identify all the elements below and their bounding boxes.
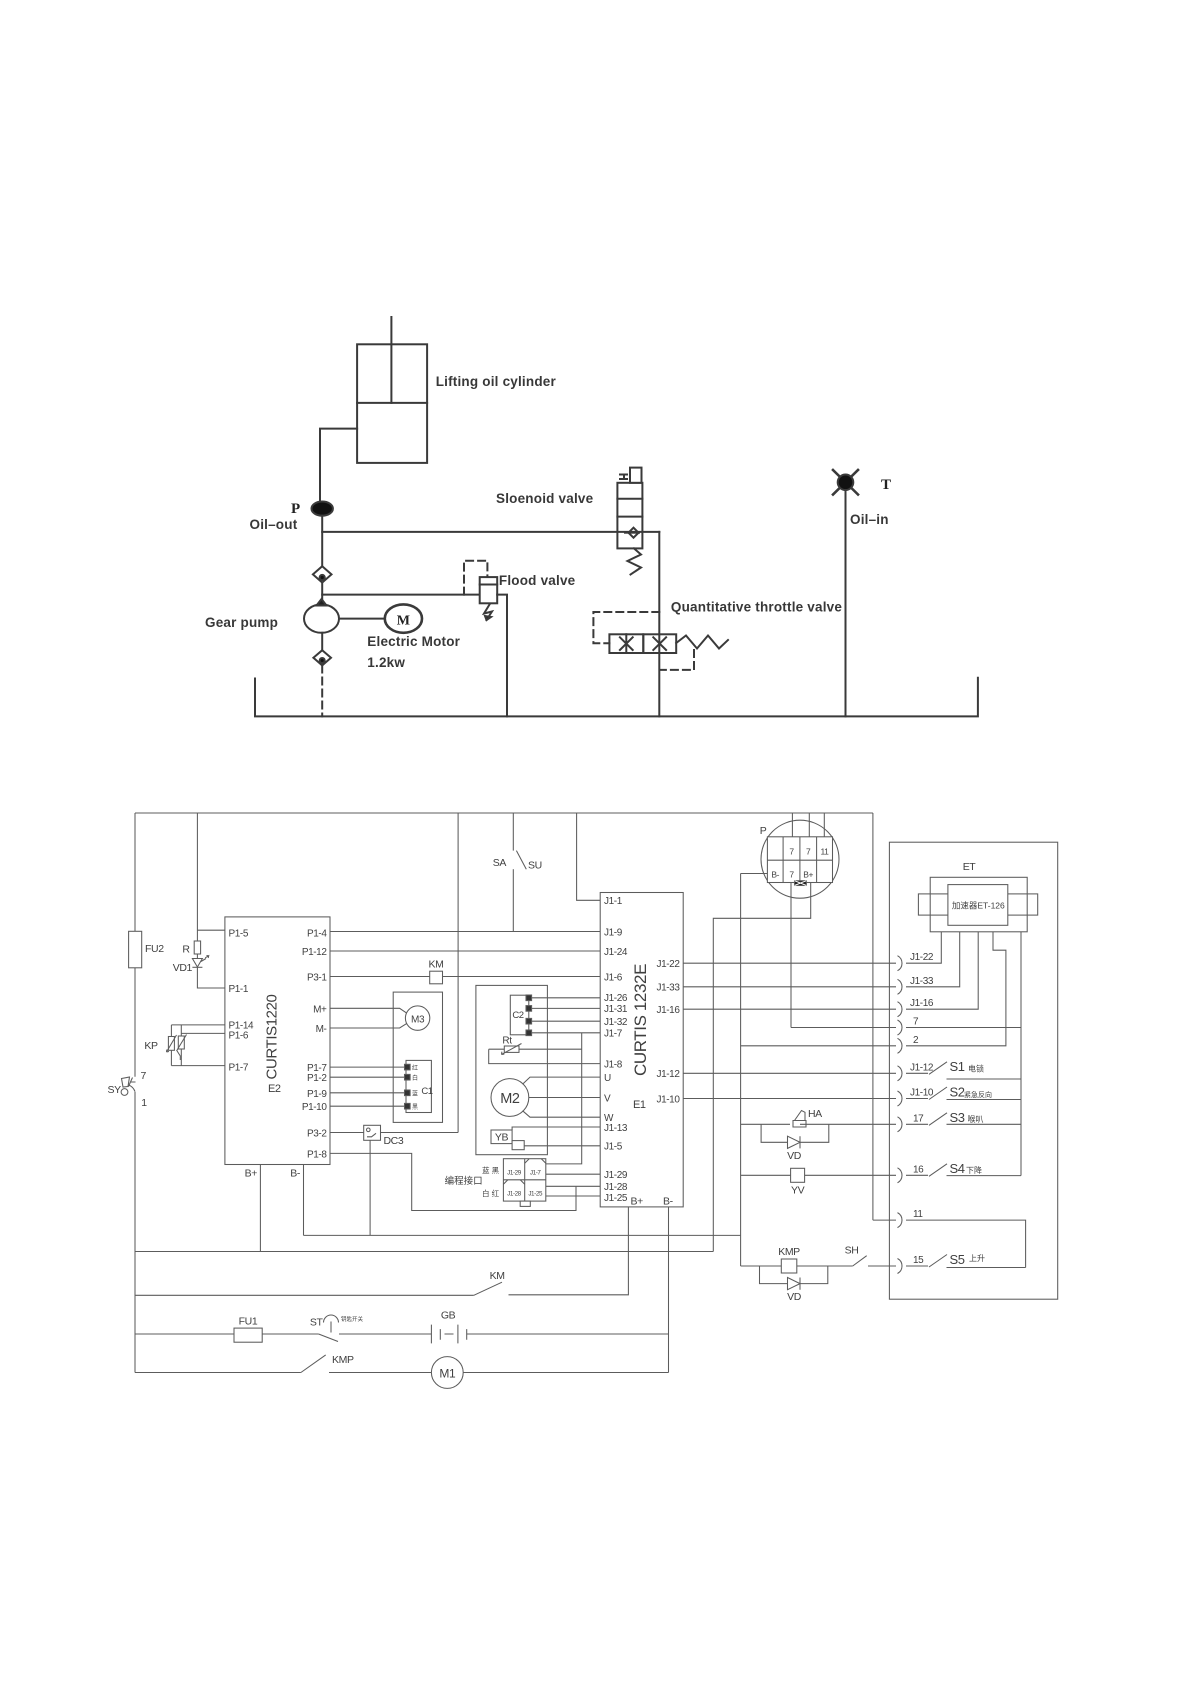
wire terminal 7 to ET [791,1027,896,1029]
svg-text:2: 2 [913,1035,919,1046]
wire P3-2 to DC3 [330,1132,364,1134]
wire C2 to J1-26 [532,997,601,999]
wire J1-16 to ET pin3 [683,1008,896,1010]
wire left rail lower [134,1092,136,1373]
wire B+ of CURTIS1220 [259,1165,261,1252]
diode VD bypass of KMP [760,1266,828,1284]
wire GB to B- vertical [467,1333,669,1335]
svg-text:蓝 黑: 蓝 黑 [482,1165,500,1175]
wire YB to J1-13 [512,1127,600,1130]
wire top rail to P pin 7a [791,813,793,837]
svg-text:J1-13: J1-13 [604,1123,628,1134]
svg-text:B+: B+ [803,870,813,880]
wire P1-8 to J1-28 net [330,1153,576,1210]
svg-text:CURTIS 1232E: CURTIS 1232E [631,964,650,1076]
solenoid valve spring [628,548,642,574]
svg-text:E2: E2 [268,1083,281,1095]
wire C2 to J1-32 [532,1020,601,1022]
wire M1 to B- vertical [463,1372,668,1374]
solenoid valve pilot box [630,468,642,483]
svg-text:GB: GB [441,1310,456,1322]
svg-text:Lifting oil cylinder: Lifting oil cylinder [436,374,557,389]
programming connector tab [520,1201,530,1206]
svg-text:J1-6: J1-6 [604,972,623,983]
wire P pin 7 to terminal 7 [790,883,792,1028]
motor M2 box [476,985,548,1154]
svg-text:M2: M2 [500,1091,520,1107]
electric motor M [385,604,422,632]
controller CURTIS 1232E box E1 [600,893,683,1207]
wire connector to J1-29 [546,1173,600,1175]
dashed suction line to tank [321,666,323,717]
sensor KP element 1 [168,1037,174,1051]
node P oil-out port [312,502,333,516]
wire KM line from left rail [135,1294,474,1296]
connector P keying mark [795,881,807,886]
svg-text:P1-10: P1-10 [302,1102,328,1113]
thermistor Rt [489,1048,582,1050]
contactor KM contact [474,1282,502,1295]
wire 11 to S5 return [906,1220,1026,1267]
electrical schematic [108,813,1058,1388]
switch S1 speed select [683,1072,896,1074]
switch SA SU [512,813,514,851]
pump motor M1 [431,1357,463,1389]
svg-text:FU2: FU2 [145,943,164,955]
wire valve YV line from common rail [741,1174,791,1176]
switch S3 horn [906,1123,928,1125]
wire DC3 to top rail [381,1132,459,1134]
svg-text:J1-9: J1-9 [604,927,623,938]
svg-text:7: 7 [806,847,811,857]
check valve above gear pump [313,566,332,582]
sensor KP element 2 [178,1036,184,1049]
wire connector to J1-25 [546,1195,600,1197]
wire pump branch to flood valve [322,594,480,596]
svg-text:Oil–in: Oil–in [850,512,889,527]
wire P1-2 to C1 [330,1076,405,1078]
svg-text:上升: 上升 [969,1254,985,1263]
svg-text:加速器ET-126: 加速器ET-126 [952,901,1005,911]
wire P1-9 to C1 [330,1092,405,1094]
svg-text:电锁: 电锁 [968,1064,984,1074]
motor M3 box [393,992,442,1122]
wire C2 to J1-31 [532,1007,601,1009]
wire J1-7 vertical to programming connector [546,1033,582,1164]
temperature sensor KP wires [171,1024,225,1026]
svg-text:J1-22: J1-22 [910,952,934,963]
wire VD1 to P1-1 [197,967,225,988]
switch S5 raise [906,1265,928,1267]
svg-text:16: 16 [913,1164,924,1175]
svg-text:P1-7: P1-7 [229,1063,249,1074]
wire HA to terminal 17 [800,1123,896,1125]
svg-text:J1-8: J1-8 [604,1059,623,1070]
wire U phase [523,1077,601,1084]
wire left rail upper [134,813,136,1077]
svg-text:VD1: VD1 [173,962,193,974]
svg-text:S5: S5 [950,1252,965,1267]
wire B- of CURTIS1220 [303,1165,305,1236]
wire pump to motor shaft [339,618,385,620]
LED VD1 [196,954,198,959]
svg-text:J1-16: J1-16 [656,1005,680,1016]
svg-text:喉叭: 喉叭 [968,1114,984,1124]
lifting oil cylinder piston rod [390,317,392,403]
contactor KMP contact [301,1355,326,1373]
svg-text:P1-12: P1-12 [302,947,328,958]
diode VD bypass of HA [761,1124,829,1142]
fuse FU2 [129,931,142,968]
svg-text:P3-2: P3-2 [307,1129,327,1140]
wire YV to terminal 16 [805,1174,896,1176]
svg-text:KP: KP [144,1040,158,1052]
svg-text:KM: KM [429,959,444,971]
throttle symbol X right [653,637,666,650]
node T oil-in port [833,470,858,495]
svg-text:J1-7: J1-7 [530,1169,542,1176]
wire top rail to P pin 11 [823,813,825,837]
wire J1-22 to ET pin1 [683,962,896,964]
wire M1 line from left rail [135,1372,301,1374]
throttle valve spring [676,636,728,649]
wire P1-5 stub [197,929,225,931]
wire KMP coil line from common rail [741,1265,782,1267]
svg-text:B-: B- [771,870,779,880]
wire P pin B- to common rail [741,873,768,875]
svg-text:编程接口: 编程接口 [445,1175,483,1187]
svg-text:KMP: KMP [332,1354,354,1366]
svg-text:B+: B+ [631,1196,644,1208]
svg-text:M: M [397,614,410,629]
wire terminal 11 from right rail [873,1219,896,1221]
svg-text:M3: M3 [411,1014,425,1025]
svg-text:J1-33: J1-33 [910,976,934,987]
common negative rail [740,874,742,1267]
svg-text:J1-24: J1-24 [604,947,628,958]
accelerator ET outer box [930,877,1027,932]
accelerator ET wide box [918,894,1037,915]
svg-text:Quantitative throttle valve: Quantitative throttle valve [671,600,842,615]
svg-text:J1-10: J1-10 [656,1094,680,1105]
wire P1-7 to C1 [330,1066,405,1068]
svg-text:J1-28: J1-28 [507,1191,522,1198]
svg-text:YV: YV [791,1185,805,1197]
solenoid valve body [617,483,642,549]
wire B- bus to common rail [304,1234,741,1236]
svg-text:M-: M- [316,1024,327,1035]
svg-text:S3: S3 [950,1110,965,1125]
svg-text:J1-10: J1-10 [910,1088,934,1099]
DC-DC module DC3 [364,1125,381,1140]
svg-text:紧急反向: 紧急反向 [964,1090,992,1099]
connector C2 [510,995,529,1035]
accelerator ET inner box [948,885,1008,926]
svg-text:S4: S4 [950,1161,965,1176]
wire B+ of CURTIS 1232E to KM line [509,1207,629,1295]
throttle symbol X left [620,634,633,653]
svg-text:J1-12: J1-12 [910,1062,934,1073]
switch S4 lower [906,1174,928,1176]
svg-text:P1-1: P1-1 [229,984,249,995]
controller CURTIS1220 box E2 [225,917,330,1165]
svg-text:ST: ST [310,1317,324,1329]
contactor coil KMP [781,1259,797,1273]
svg-text:J1-26: J1-26 [604,993,628,1004]
solenoid valve check symbol [625,532,639,534]
svg-text:P3-1: P3-1 [307,973,327,984]
wire check valve to gear pump [321,583,323,605]
fuse FU1 [234,1328,262,1342]
svg-text:P1-9: P1-9 [307,1089,327,1100]
wire right rail to terminal 11 [872,813,874,1220]
svg-text:U: U [604,1073,611,1084]
programming connector box [503,1159,545,1201]
wire P pin B+ jog [713,883,810,1252]
wire Rt to J1-8 [489,1049,601,1063]
key start switch ST [319,1334,338,1342]
wire terminal 2 to ET pin4 [741,1045,896,1047]
flood valve drain arrow [484,605,492,621]
resistor R [194,941,200,954]
svg-text:红: 红 [412,1064,418,1072]
connector C1 [406,1060,431,1112]
svg-text:J1-29: J1-29 [604,1170,628,1181]
svg-text:Gear pump: Gear pump [205,615,278,630]
quantitative throttle valve pilot dashed lines [593,612,659,643]
wire M+ to motor M3 [330,1008,407,1013]
svg-text:V: V [604,1093,611,1104]
svg-text:J1-33: J1-33 [656,983,680,994]
svg-text:P: P [291,501,300,517]
wire DC3 to B- bus [369,1140,371,1235]
svg-text:B-: B- [663,1196,674,1208]
svg-text:P: P [760,825,767,837]
svg-text:J1-29: J1-29 [507,1169,522,1176]
wire top supply rail [135,812,873,814]
svg-text:11: 11 [820,847,829,857]
wire J1-33 to ET pin2 [683,986,896,988]
svg-text:SA: SA [493,857,507,869]
horn HA [793,1121,806,1128]
svg-text:7: 7 [141,1070,147,1082]
lifting oil cylinder body [357,344,427,463]
svg-text:SY: SY [108,1084,122,1096]
svg-text:J1-25: J1-25 [528,1191,543,1198]
wire P1-10 to C1 [330,1105,405,1107]
svg-text:P1-5: P1-5 [229,929,249,940]
svg-text:KM: KM [490,1270,505,1282]
wire ST to GB [339,1333,431,1335]
svg-text:C1: C1 [421,1086,432,1097]
svg-text:P1-4: P1-4 [307,929,327,940]
svg-text:C2: C2 [512,1010,523,1021]
wire oil-in to tank [845,490,847,716]
svg-text:J1-16: J1-16 [910,998,934,1009]
wire KMP to M1 [329,1372,431,1374]
svg-text:Rt: Rt [502,1036,512,1047]
wire solenoid valve down to tank [658,532,660,717]
svg-text:J1-7: J1-7 [604,1029,623,1040]
svg-text:J1-22: J1-22 [656,959,680,970]
svg-text:Oil–out: Oil–out [250,517,298,532]
panel box right [889,842,1057,1299]
key switch SY [129,1085,136,1092]
svg-text:DC3: DC3 [384,1135,404,1147]
wire B+ bus [135,1251,713,1253]
svg-text:FU1: FU1 [239,1316,258,1328]
svg-text:S1: S1 [950,1059,965,1074]
wire horn line from common rail [741,1123,790,1125]
svg-text:R: R [182,944,190,956]
battery GB [431,1325,466,1344]
wire cylinder inlet pipe [320,429,357,502]
svg-text:J1-1: J1-1 [604,896,623,907]
svg-text:1: 1 [141,1097,147,1109]
svg-text:M1: M1 [439,1367,456,1381]
brake solenoid YB [491,1130,512,1144]
svg-text:黑: 黑 [412,1104,418,1111]
wire main pressure line P to solenoid valve [322,531,659,533]
svg-text:J1-31: J1-31 [604,1004,628,1015]
svg-text:HA: HA [808,1108,822,1120]
wire B- of CURTIS 1232E [668,1207,670,1373]
svg-text:VD: VD [787,1150,802,1162]
svg-text:J1-28: J1-28 [604,1182,628,1193]
wire FU1 to ST [262,1333,318,1335]
svg-text:Flood valve: Flood valve [499,573,576,588]
quantitative throttle valve body [609,634,643,653]
svg-text:SH: SH [845,1245,859,1257]
lifting oil cylinder piston line [357,402,427,404]
wire W phase [523,1111,601,1118]
svg-text:15: 15 [913,1255,924,1266]
svg-text:7: 7 [913,1017,919,1028]
svg-text:M+: M+ [313,1004,327,1015]
svg-text:7: 7 [789,870,794,880]
wire KMP to SH [797,1265,853,1267]
svg-text:CURTIS1220: CURTIS1220 [264,994,281,1079]
svg-text:B+: B+ [245,1168,258,1180]
svg-text:钥匙开关: 钥匙开关 [341,1315,364,1323]
svg-text:ET: ET [963,861,977,873]
svg-text:7: 7 [789,847,794,857]
gear pump [304,604,339,632]
svg-text:蓝: 蓝 [412,1090,418,1098]
motor M2 [491,1079,529,1117]
svg-text:J1-5: J1-5 [604,1142,623,1153]
connector P circle [761,820,839,898]
svg-text:KMP: KMP [778,1246,800,1258]
svg-text:SU: SU [528,860,542,872]
wire FU1 line from left rail [135,1333,234,1335]
wire P1-4 to J1-9 [330,931,600,933]
wire P1-12 to J1-24 [330,950,600,952]
connector P table [767,837,832,883]
wire flood valve to tank [497,595,507,717]
hydraulic section [205,317,978,716]
svg-text:下降: 下降 [966,1165,982,1175]
wire V phase [529,1097,600,1099]
wire M- to motor M3 [330,1023,407,1028]
wire top rail to P pin 7b [808,813,810,837]
suction check valve below pump [321,633,323,650]
interlock switch SH [853,1256,867,1266]
motor M3 [405,1006,429,1030]
wire connector to J1-28 [546,1185,600,1187]
svg-text:Electric Motor: Electric Motor [367,634,460,649]
wire resistor branch from top rail [196,813,198,941]
svg-text:J1-25: J1-25 [604,1193,628,1204]
svg-text:17: 17 [913,1113,924,1124]
svg-text:P1-8: P1-8 [307,1149,327,1160]
switch S2 emergency reverse [683,1098,896,1100]
svg-text:B-: B- [290,1168,301,1180]
svg-text:白: 白 [412,1074,418,1082]
svg-text:VD: VD [787,1291,802,1303]
svg-text:11: 11 [913,1209,923,1220]
svg-text:YB: YB [495,1132,509,1144]
lowering valve YV [791,1168,805,1182]
wire P3-1 to KM to J1-6 [330,976,600,978]
svg-text:J1-12: J1-12 [656,1069,680,1080]
flood valve pilot dashed line [464,561,487,595]
flood valve body [480,577,498,603]
tank outline [255,678,978,717]
svg-text:S2: S2 [950,1084,965,1099]
svg-text:P1-6: P1-6 [229,1031,249,1042]
svg-text:白 红: 白 红 [482,1188,500,1198]
wire C2 to J1-7 [532,1032,601,1034]
svg-text:E1: E1 [633,1099,646,1111]
svg-text:J1-32: J1-32 [604,1017,628,1028]
contactor coil KM [430,971,443,984]
svg-text:P1-2: P1-2 [307,1073,327,1084]
svg-text:T: T [881,477,891,493]
svg-text:Sloenoid valve: Sloenoid valve [496,491,594,506]
wire top rail to J1-1 [577,813,601,900]
wire P to pump vertical [321,516,323,567]
svg-text:1.2kw: 1.2kw [367,655,405,670]
wire YB to J1-5 [524,1145,600,1147]
